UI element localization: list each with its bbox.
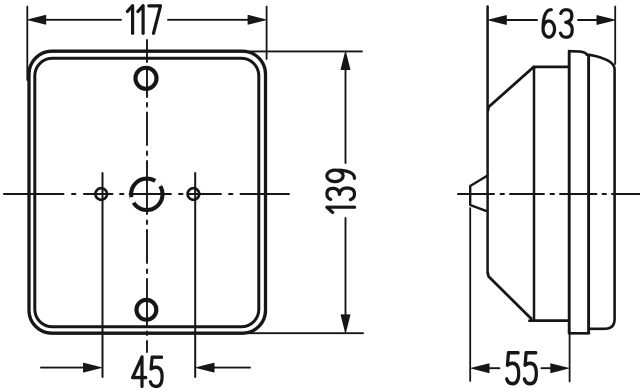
dimension 55: text label — [507, 353, 537, 384]
dimension 117: left extension line — [26, 7, 28, 81]
dimension 55: left arrowhead (pointing left) — [472, 364, 490, 373]
dimension 55: right extension line — [569, 335, 571, 382]
side view: seal ring top cap — [569, 51, 587, 54]
side view: lens front face / 63 left extension line — [486, 7, 489, 274]
dimension 55: right arrow shaft — [542, 367, 557, 369]
dimension 63: right extension line — [614, 7, 616, 65]
dimension 63: right arrow shaft — [578, 19, 600, 21]
top screw hole — [136, 68, 157, 89]
left mounting hole mark — [95, 188, 107, 200]
left mounting hole vertical line / 45 extension line — [102, 173, 104, 377]
dimension 139: text label (rotated) — [327, 170, 355, 212]
dimension 45: text label — [133, 357, 163, 386]
dimension 117: right extension line — [266, 7, 268, 60]
dimension 117: left arrowhead — [28, 15, 46, 24]
dimension 117: right arrowhead — [248, 15, 266, 24]
dimension 139: bottom extension line — [246, 332, 363, 334]
dimension 45: left arrow shaft — [41, 367, 86, 369]
center hole (large) — [131, 179, 162, 210]
dimension 55: left arrow shaft — [487, 367, 500, 369]
front view: inner lens outline (rounded rect) — [35, 58, 259, 327]
dimension 117: text label — [127, 6, 160, 34]
dimension 45: left arrowhead (pointing right) — [84, 363, 102, 372]
dimension 63: right arrowhead (pointing right) — [597, 16, 615, 25]
dimension 139: top extension line — [246, 50, 362, 52]
front view: outer housing outline (rounded rect) — [29, 51, 266, 333]
dimension 63: text label — [543, 10, 572, 38]
side view: back housing top and right edge — [587, 55, 615, 329]
dimension 45: right arrowhead (pointing left) — [197, 363, 215, 372]
dimension 139: bottom arrowhead — [341, 315, 350, 333]
dimension 55: right arrowhead (pointing right) — [551, 364, 569, 373]
side view: seal ring back vertical — [568, 51, 571, 333]
bottom screw hole — [137, 300, 157, 320]
side view: top edge — [534, 66, 570, 69]
side view: bottom slope of lens — [488, 273, 531, 318]
side view: mounting tab on lens front — [470, 176, 487, 212]
side view: horizontal centerline — [458, 193, 640, 195]
dimension 117: dimension line right segment — [168, 19, 264, 21]
dimension 55: left extension line — [469, 208, 471, 381]
right mounting hole mark — [188, 188, 200, 200]
dimension 45: right arrow shaft — [212, 367, 250, 369]
dimension 117: dimension line left segment — [30, 19, 121, 21]
vertical centerline of front view — [146, 40, 148, 352]
center hole: compass gap artifacts — [132, 181, 161, 203]
horizontal centerline of front view — [4, 193, 289, 195]
dimension 139: top arrowhead — [341, 52, 350, 70]
side view: back housing front vertical — [587, 55, 590, 332]
dimension 63: left arrow shaft — [504, 19, 537, 21]
dimension 139: dimension line lower segment — [345, 218, 347, 331]
side view: seal ring bottom edge — [569, 332, 589, 335]
side view: top slope of lens — [488, 68, 534, 111]
side view: bottom edge — [530, 319, 568, 322]
side view: lens/body joint vertical — [533, 68, 536, 320]
right mounting hole vertical line / 45 extension line — [194, 173, 196, 377]
dimension 63: left arrowhead (pointing left) — [489, 16, 507, 25]
dimension 139: dimension line upper segment — [345, 54, 347, 163]
